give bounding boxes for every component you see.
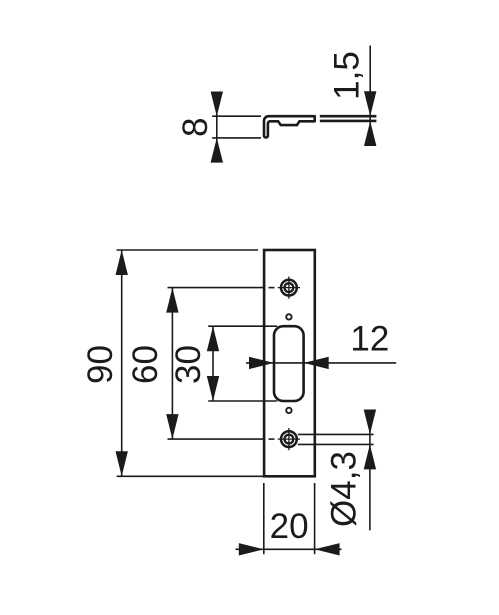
dimension 12: right arrow <box>304 357 329 369</box>
dimension 90: extension line bottom <box>117 475 263 477</box>
dimension 20: extension line right <box>314 483 316 554</box>
svg-text:90: 90 <box>81 345 120 384</box>
dimension diameter 4,3: dimension line <box>369 410 371 531</box>
dimension 1,5: dimension line <box>369 46 371 147</box>
upper screw hole inner circle <box>285 283 294 292</box>
svg-text:30: 30 <box>169 345 208 384</box>
svg-text:20: 20 <box>270 507 309 546</box>
lower screw hole cross vertical <box>288 428 290 450</box>
svg-text:1,5: 1,5 <box>328 51 367 100</box>
dimension 60: lower arrow <box>166 414 178 439</box>
dimension diameter 4,3: lower arrow <box>364 444 376 469</box>
dimension 60: extension line top (centre line of upper hole) <box>168 287 264 289</box>
section view: bent plate profile outline <box>264 116 315 137</box>
lower screw hole cross horizontal <box>278 438 300 440</box>
dimension 8: dimension line <box>216 92 218 163</box>
dimension 30: lower arrow <box>207 376 219 401</box>
dimension 12: left arrow <box>249 357 274 369</box>
dimension 90: dimension line <box>121 250 123 476</box>
dimension 12: dimension line <box>246 362 396 364</box>
dimension 30: extension line bottom <box>208 400 277 402</box>
svg-text:8: 8 <box>176 118 215 137</box>
dimension diameter 4,3: extension line top <box>298 433 374 435</box>
small dot below slot <box>286 408 291 413</box>
dimension 20: extension line left <box>263 483 265 554</box>
dimension 8: extension line bottom <box>212 137 261 139</box>
upper screw hole cross vertical <box>288 277 290 299</box>
dimension 20: right arrow <box>315 543 340 555</box>
dimension 8: extension line top <box>212 115 261 117</box>
dimension 30: dimension line <box>212 326 214 401</box>
plate front view outline <box>264 250 315 476</box>
dimension 30: upper arrow <box>207 326 219 351</box>
dimension 60: extension line bottom (centre line of lower hole) <box>168 438 264 440</box>
dimension 1,5: upper arrow <box>364 91 376 116</box>
dimension 20: left arrow <box>239 543 264 555</box>
dimension diameter 4,3: upper arrow <box>364 410 376 435</box>
centre line dash at lower hole <box>269 438 275 440</box>
section view: flat plate segment bottom line <box>320 120 377 123</box>
centre line dash at upper hole <box>269 287 275 289</box>
dimension 60: upper arrow <box>166 288 178 313</box>
lower screw hole outer circle <box>281 431 297 447</box>
dimension 20: dimension line <box>236 548 342 550</box>
small dot above slot <box>286 314 291 319</box>
dimension 90: lower arrow <box>116 451 128 476</box>
svg-text:Ø4,3: Ø4,3 <box>324 451 363 527</box>
dimension diameter 4,3: extension line bottom <box>298 443 374 445</box>
dimension 1,5: lower arrow <box>364 121 376 146</box>
dimension 60: dimension line <box>171 288 173 440</box>
dimension 90: upper arrow <box>116 250 128 275</box>
dimension 30: extension line top <box>208 325 277 327</box>
upper screw hole outer circle <box>281 280 297 296</box>
section view: flat plate segment top line <box>320 115 377 118</box>
upper screw hole cross horizontal <box>278 287 300 289</box>
lower screw hole inner circle <box>285 435 294 444</box>
dimension 8: lower arrow <box>211 138 223 163</box>
dimension 90: extension line top <box>117 249 258 251</box>
svg-text:60: 60 <box>126 345 165 384</box>
latch slot rounded rectangle <box>274 326 304 401</box>
dimension 8: upper arrow <box>211 92 223 117</box>
svg-text:12: 12 <box>350 320 389 359</box>
